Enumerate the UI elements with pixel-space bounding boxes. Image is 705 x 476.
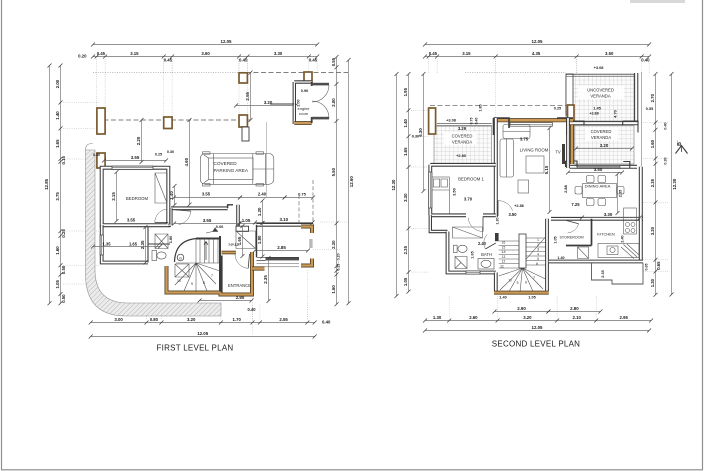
porch dim 3.10 [253,217,315,224]
svg-text:3.75: 3.75 [520,137,529,142]
svg-text:3.10: 3.10 [280,217,289,222]
plan2 construction grid horizontals right [643,122,668,124]
plan1 roof dotted line upper [93,72,246,74]
svg-text:0.45: 0.45 [239,57,248,62]
svg-text:12.60: 12.60 [349,176,354,188]
svg-text:12.05: 12.05 [532,39,544,44]
bedroom window [112,166,153,169]
plan1 canopy dashed line [96,119,250,121]
plan1 bottom construction verticals [146,305,148,320]
svg-text:7: 7 [533,276,535,280]
porch dim 1.20 [257,199,265,226]
storeroom washer [578,247,589,259]
kitchen right wall [639,219,643,262]
svg-text:4.60: 4.60 [184,157,189,166]
svg-text:12.05: 12.05 [221,39,233,44]
kitchen dim 3.30 [580,212,642,219]
plan2 left sub-dimension chain [403,72,411,294]
svg-text:2.20: 2.20 [136,136,141,145]
svg-text:12.30: 12.30 [391,179,396,191]
svg-text:VERANDA: VERANDA [590,94,610,99]
svg-text:0.45: 0.45 [309,57,318,62]
hall dim 3.55 [172,218,242,225]
plan1 right overall dim 12.60 [347,58,354,305]
living room top window [510,123,553,127]
corridor wall [430,215,447,231]
svg-text:2.95: 2.95 [620,315,629,320]
svg-text:4.35: 4.35 [532,51,541,56]
wc dim line [91,245,162,249]
covered veranda left hatch [434,126,492,164]
plan1 hatched boundary wall band [86,150,222,316]
svg-text:1.80: 1.80 [257,235,262,244]
svg-text:3.15: 3.15 [130,51,139,56]
svg-text:2.35: 2.35 [403,245,408,254]
svg-text:0.40: 0.40 [322,320,331,325]
svg-text:SECOND LEVEL PLAN: SECOND LEVEL PLAN [492,340,580,349]
svg-text:UNCOVERED: UNCOVERED [587,88,614,93]
svg-text:2.60: 2.60 [469,315,478,320]
svg-text:+2.80: +2.80 [456,153,466,158]
svg-text:14: 14 [501,250,505,254]
svg-text:+3.08: +3.08 [594,65,605,70]
engine room left stub wall [270,103,294,105]
svg-text:2.35: 2.35 [650,178,655,187]
porch bottom window dark strip [266,257,300,260]
svg-text:1.40: 1.40 [403,119,408,128]
svg-text:0.40: 0.40 [475,118,479,125]
svg-text:0.40: 0.40 [641,57,650,62]
uncovered veranda hatch [566,74,634,121]
corridor closet [453,227,483,238]
svg-text:0.96: 0.96 [301,89,308,93]
plan1 top overall dim 12.05 [91,39,319,46]
svg-text:5.15: 5.15 [544,165,549,174]
svg-text:3.30: 3.30 [274,51,283,56]
svg-text:0.75: 0.75 [298,192,307,197]
entrance dim 2.35 [263,256,271,303]
svg-text:FIRST LEVEL PLAN: FIRST LEVEL PLAN [157,344,234,353]
plan2 bottom construction verticals [448,296,450,317]
living room TV [562,144,565,164]
svg-text:2.80: 2.80 [570,306,579,311]
svg-text:1.30: 1.30 [650,278,655,287]
svg-text:2.35: 2.35 [618,189,623,197]
svg-text:1.30: 1.30 [496,217,500,224]
engine door arc top [312,85,329,102]
plan2 bottom sub-dimension chain [423,315,653,322]
svg-text:2.55: 2.55 [279,317,288,322]
svg-text:+2.88: +2.88 [589,112,598,116]
porch tan corner top [301,227,312,234]
curved hall wall [175,239,198,263]
svg-text:3.20: 3.20 [600,143,609,148]
svg-text:12.85: 12.85 [44,178,49,190]
dining table and chairs [575,176,624,206]
svg-text:0.15: 0.15 [61,156,66,165]
svg-text:0.50: 0.50 [61,294,66,303]
svg-text:13: 13 [502,255,506,259]
wc strip walls [102,225,148,262]
plan2 top overall dim 12.05 [423,39,651,46]
column A2 [164,117,172,129]
bedroom door [155,209,169,222]
svg-text:1.40: 1.40 [499,296,506,300]
svg-text:2.40: 2.40 [258,192,267,197]
svg-text:DINING AREA: DINING AREA [585,184,611,189]
bath walls [448,232,496,273]
svg-text:3.50: 3.50 [509,212,518,217]
plan2 stair central void [519,234,526,268]
svg-text:1.65: 1.65 [55,139,60,148]
svg-text:PARKING AREA: PARKING AREA [214,168,249,173]
svg-text:2.40: 2.40 [621,235,625,242]
svg-text:16: 16 [502,241,506,245]
svg-text:8: 8 [525,281,527,285]
plan1 construction grid verticals [96,59,98,74]
bedroom1 bed [432,177,450,214]
plan1 right sub-dimension chain [331,55,339,306]
svg-text:0.25: 0.25 [554,107,561,111]
stair door bar [495,233,499,241]
living room sofa set [500,125,544,194]
svg-text:VERANDA: VERANDA [452,140,472,145]
porch top wall [257,223,314,227]
svg-text:11: 11 [500,264,504,268]
svg-text:2.55: 2.55 [245,91,250,100]
svg-text:1.60: 1.60 [650,139,655,148]
svg-text:2.80: 2.80 [236,295,245,300]
uncovered veranda left boundary [566,74,573,115]
svg-text:0.80: 0.80 [150,317,159,322]
dining bottom wall [551,217,643,221]
bedroom top dim 3.55 [102,155,168,162]
column A1 tall left [97,108,105,134]
svg-text:9: 9 [191,282,193,286]
svg-text:2.35: 2.35 [263,275,268,284]
column A6 [97,153,105,168]
plan2 right sub-dimension chain [650,72,661,297]
svg-text:3.55: 3.55 [131,155,140,160]
svg-text:+3.08: +3.08 [446,118,457,123]
plan1 top sub-dimension chain [91,51,319,62]
svg-text:1.05: 1.05 [554,236,558,243]
plan2 right overall dim 12.30 [670,72,677,297]
wc dim 2.35 [140,225,148,265]
svg-text:10: 10 [508,279,512,283]
dim 2.20 above bedroom [136,118,144,164]
plan1 construction grid horizontals [63,102,100,104]
svg-text:room: room [299,111,309,116]
svg-text:2.85: 2.85 [277,245,286,250]
plan1 left sub-dimension chain [55,64,66,306]
svg-text:1.35: 1.35 [103,241,112,246]
stair enclosure walls [196,236,220,293]
svg-text:3.15: 3.15 [462,51,471,56]
entrance top tan wall [222,251,237,255]
svg-text:1.70: 1.70 [233,317,242,322]
svg-text:0.25: 0.25 [61,229,66,238]
stair and entrance tan outer wall [167,252,253,295]
svg-text:1.80: 1.80 [168,236,173,244]
svg-text:3: 3 [537,248,539,252]
svg-text:0.25 - 0.20: 0.25 - 0.20 [337,253,341,270]
svg-text:1.05: 1.05 [55,280,60,289]
eave line right [641,72,643,166]
svg-text:0.30: 0.30 [664,157,668,164]
svg-text:0.55: 0.55 [331,57,336,66]
svg-text:-0.06: -0.06 [215,225,224,229]
plan2 construction grid verticals top [428,59,430,74]
label covered veranda left [444,132,477,145]
porch dim 2.85 [253,245,310,252]
plan1 left overall dim 12.85 [44,64,52,306]
covered veranda bottom wall [570,165,638,169]
hall level flag [206,228,218,233]
svg-text:3.50: 3.50 [594,167,603,172]
svg-text:2.35: 2.35 [601,270,605,277]
plan2 right wall dining section [639,167,643,219]
svg-text:3.55: 3.55 [203,218,212,223]
svg-text:7: 7 [211,274,213,278]
svg-text:1.05: 1.05 [242,218,251,223]
svg-text:2.00: 2.00 [331,98,336,107]
column A4 [239,115,247,127]
svg-text:3.29: 3.29 [458,126,467,131]
svg-text:COVERED: COVERED [452,134,473,139]
svg-text:3.50: 3.50 [605,51,614,56]
svg-text:3.70: 3.70 [464,197,473,202]
svg-text:1.45: 1.45 [593,106,601,111]
svg-text:1.65: 1.65 [471,251,475,258]
svg-text:0.30: 0.30 [412,135,419,139]
svg-text:3.55: 3.55 [202,192,211,197]
bath door [484,235,496,250]
bath window [466,271,480,274]
plan2 tall tan column left [429,108,436,134]
living room side walls [494,118,498,217]
covered veranda left tan wall [570,125,574,164]
left veranda bottom railing [434,164,492,167]
porch tan corner bottom [301,259,312,266]
svg-text:4: 4 [537,252,539,256]
canopy dim 2.55 [245,71,253,122]
wall between verandas [573,121,638,125]
svg-text:1.65: 1.65 [237,236,242,245]
plan2 staircase treads [499,237,546,292]
svg-text:2.10: 2.10 [573,315,582,320]
kitchen top counter with stove [624,208,637,234]
svg-text:1.20: 1.20 [257,207,262,216]
hall dim 1.65 [237,224,245,258]
svg-text:3.55: 3.55 [127,218,136,223]
svg-text:BEDROOM: BEDROOM [126,196,149,201]
bedroom1 door [468,217,483,232]
svg-text:0.50: 0.50 [61,265,66,274]
svg-text:3.30: 3.30 [604,212,613,217]
svg-text:1.85: 1.85 [479,104,483,111]
svg-text:KITCHEN: KITCHEN [597,232,615,237]
plan2 bottom overall dim 12.05 [423,325,651,332]
dim 4.60 parking [184,118,192,207]
svg-text:2.00: 2.00 [297,99,301,106]
svg-text:3.15: 3.15 [111,192,116,201]
svg-text:B´: B´ [677,140,683,146]
plan1 bottom overall dim 12.05 [89,331,317,338]
svg-text:4.70: 4.70 [614,110,618,117]
plan2 dim 6.30 [418,72,426,193]
living door arc [498,200,513,216]
svg-text:0.20: 0.20 [78,54,87,59]
staircase treads [175,239,220,293]
porch dims [172,196,242,200]
plan2 left overall dim 12.30 [391,72,399,298]
svg-text:0.45: 0.45 [97,51,106,56]
dining top window hatched strip [577,165,620,168]
svg-text:8: 8 [203,281,205,285]
svg-text:3.20: 3.20 [523,315,532,320]
kitchen bottom counter [598,244,639,259]
bedroom wardrobe [155,173,167,203]
stair shower square [175,264,189,277]
entrance bottom-left tan step [252,266,265,270]
svg-text:0.40: 0.40 [664,122,668,129]
hall shelf box [236,226,249,231]
svg-text:2.30: 2.30 [331,240,336,249]
svg-text:0.25: 0.25 [155,153,162,157]
svg-text:1.60: 1.60 [331,285,336,294]
svg-text:6: 6 [536,262,538,266]
faint cropped text top right [630,0,685,3]
svg-text:7.25: 7.25 [571,202,580,207]
thin boundary line right of car [266,122,268,197]
svg-text:3.30: 3.30 [403,193,408,202]
svg-text:COVERED: COVERED [591,129,612,134]
engine door arc bottom [312,101,329,118]
svg-text:3.50: 3.50 [452,187,457,196]
svg-text:TV: TV [555,150,561,155]
kitchen bottom wall [549,260,643,264]
living room top corner blocks [494,118,510,135]
svg-text:5: 5 [537,257,539,261]
svg-text:12.05: 12.05 [197,331,209,336]
svg-text:1.65: 1.65 [403,147,408,156]
second level plan group [391,39,688,348]
label covered veranda right [585,128,618,141]
first level plan group [44,39,354,352]
balcony outline [592,263,644,284]
living room top tan wall [494,118,574,122]
left veranda top railing [437,123,492,126]
veranda tan column [568,105,575,125]
svg-text:0.45: 0.45 [429,51,438,56]
stair circle G [177,254,184,261]
svg-text:1.40: 1.40 [557,256,564,260]
covered parking car [200,152,273,186]
svg-text:ENTRANCE: ENTRANCE [228,283,251,288]
svg-text:BEDROOM 1: BEDROOM 1 [458,177,484,182]
wc shower [155,234,168,249]
svg-text:COVERED: COVERED [214,161,238,166]
wc toilet [152,251,166,261]
svg-text:3.20: 3.20 [187,317,196,322]
svg-text:3.20: 3.20 [650,226,655,235]
svg-text:2.00: 2.00 [55,79,60,88]
porch dim 1.80 [257,221,265,259]
svg-text:12.30: 12.30 [672,178,677,190]
svg-text:0.30: 0.30 [167,150,174,154]
svg-text:2.35: 2.35 [140,240,145,249]
svg-text:2: 2 [537,243,539,247]
porch side window grey [309,239,312,248]
engine room tan bottom wall [294,121,311,125]
svg-text:10: 10 [177,279,181,283]
entrance dim 2.80 [198,295,254,302]
entrance door [235,254,250,268]
svg-text:2.40: 2.40 [478,241,487,246]
stair arrow [204,242,208,261]
svg-text:2.70: 2.70 [650,93,655,102]
svg-text:1.30: 1.30 [433,315,442,320]
entrance left wall [220,256,222,293]
bedroom walls [102,168,169,226]
bath fixtures [454,245,495,269]
covered veranda right hatch [575,126,635,165]
porch step lines [257,264,300,267]
storeroom door [567,221,579,234]
plan2 dim 2.90 [493,306,551,313]
dim 1.40 above hall [169,184,177,207]
svg-text:LIVING ROOM: LIVING ROOM [520,148,549,153]
label uncovered veranda [578,86,624,99]
svg-text:3.60: 3.60 [201,51,210,56]
canopy dim 3.20 [234,100,298,107]
hall door [176,210,191,225]
covered veranda dim 3.20 [574,143,634,150]
svg-text:+2.86: +2.86 [514,203,525,208]
svg-text:2.90: 2.90 [517,306,526,311]
svg-text:STOREROOM: STOREROOM [559,236,583,240]
engine room door leaves [312,83,329,86]
svg-text:0.45: 0.45 [164,57,173,62]
svg-text:1.40: 1.40 [55,111,60,120]
svg-text:1.05: 1.05 [528,296,535,300]
band top end arc [86,143,94,150]
living dim 5.15 [544,126,552,214]
bedroom dim 3.15 [111,170,119,223]
svg-text:0.30: 0.30 [93,153,100,157]
plan2 roof dotted and dashed lines [465,72,566,74]
bedroom1 walls [430,165,496,216]
svg-text:3.00: 3.00 [114,317,123,322]
svg-text:9: 9 [517,281,519,285]
column A5 engine top [304,72,312,82]
uncovered veranda right wall [634,73,638,122]
uncovered veranda top boundary [566,75,634,77]
plan2 stair tan bottom wall [494,291,549,295]
hall wardrobe [236,231,256,249]
svg-text:2.88: 2.88 [563,184,568,193]
svg-text:1.05: 1.05 [403,277,408,286]
porch left wall [256,225,258,257]
storeroom walls [566,219,592,246]
svg-text:0.55: 0.55 [646,107,653,111]
svg-text:VERANDA: VERANDA [591,135,611,140]
svg-text:0.65: 0.65 [645,264,649,271]
svg-text:3.75: 3.75 [55,192,60,201]
bedroom1 window [429,172,432,208]
svg-text:12.05: 12.05 [532,325,544,330]
